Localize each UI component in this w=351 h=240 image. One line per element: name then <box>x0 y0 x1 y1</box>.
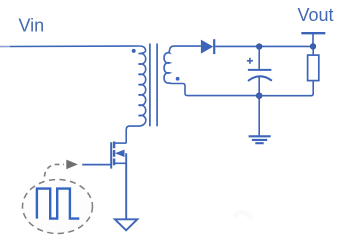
transformer T1 polarity dot (primary) <box>132 49 136 53</box>
capacitor C1 plus sign <box>247 58 253 64</box>
junction dot (Vout node) <box>310 44 316 50</box>
output terminal stem <box>312 33 314 43</box>
MOSFET Q1 gate lead <box>82 164 111 166</box>
wire bottom rail to resistor <box>259 81 313 96</box>
pulse source ellipse <box>23 180 93 234</box>
diode D1 <box>201 40 213 54</box>
transformer T1 polarity dot (secondary) <box>176 77 180 81</box>
diode D1 cathode bar <box>213 39 215 54</box>
MOSFET Q1 drain lead <box>115 142 126 144</box>
junction dot (bottom node) <box>256 93 262 99</box>
ground (output) bars <box>249 136 271 143</box>
wire Vin rail <box>0 46 11 48</box>
MOSFET Q1 source lead <box>115 162 126 164</box>
dashed arc (gate drive indication) <box>45 164 65 176</box>
transformer T1 core <box>149 44 151 127</box>
MOSFET Q1 source vertical <box>125 153 127 219</box>
capacitor C1 curved plate <box>248 76 272 81</box>
pulse source square wave <box>37 189 79 219</box>
svg-text:Vin: Vin <box>19 16 45 36</box>
resistor R1 top lead <box>312 50 314 56</box>
ground (output) stem <box>258 99 260 136</box>
MOSFET Q1 body arrow <box>115 150 125 157</box>
capacitor C1 lead <box>258 49 260 69</box>
MOSFET Q1 gate bar <box>110 142 112 168</box>
wire diode to Vout <box>215 45 313 47</box>
capacitor C1 bottom lead <box>258 77 260 94</box>
resistor R1 <box>308 55 319 81</box>
transformer T1 secondary winding <box>164 46 259 96</box>
capacitor C1 top plate <box>248 69 272 71</box>
faint watermark arc <box>235 212 253 219</box>
svg-text:Vout: Vout <box>298 5 334 25</box>
ground (source) triangle <box>115 219 137 230</box>
output terminal bar <box>301 32 325 34</box>
MOSFET Q1 channel segments <box>113 142 115 166</box>
junction dot (cap top) <box>256 44 262 50</box>
transformer T1 primary winding <box>126 46 146 143</box>
arrowhead (gray) <box>66 160 78 170</box>
